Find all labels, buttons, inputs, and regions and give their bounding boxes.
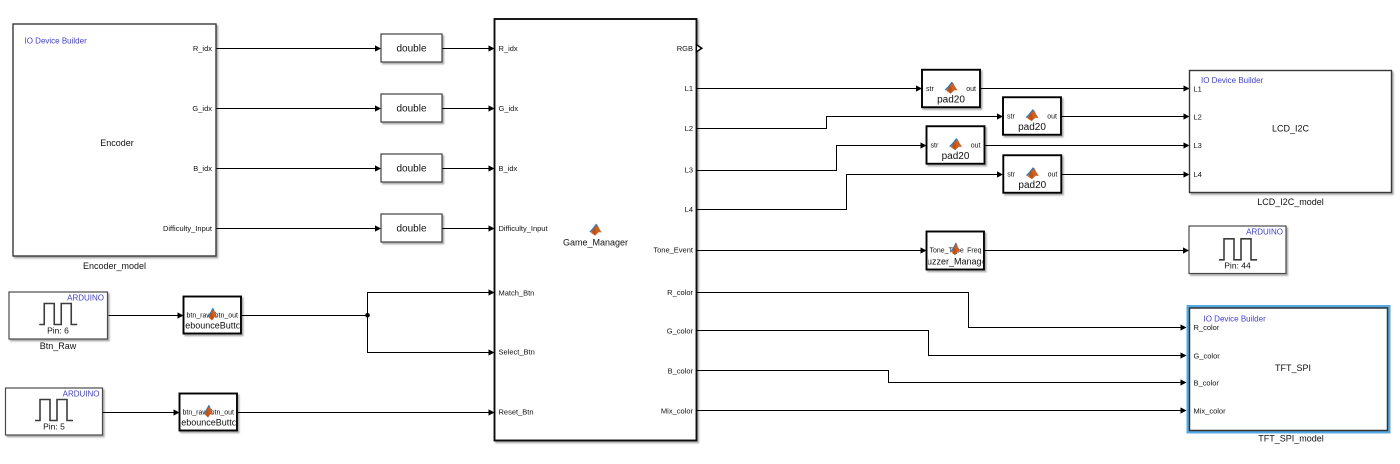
MATLAB logo Buzzer_Manager	[951, 242, 960, 255]
svg-text:ARDUINO: ARDUINO	[67, 294, 104, 303]
svg-text:pad20: pad20	[937, 94, 965, 105]
wire double2 to Game_Manager	[443, 108, 489, 110]
svg-text:L3: L3	[685, 166, 693, 175]
svg-text:L1: L1	[1194, 85, 1202, 94]
block double (Data Type Conversion 1)	[381, 34, 442, 62]
svg-text:double: double	[396, 224, 426, 235]
wire Debounce2 to Reset_Btn	[238, 412, 489, 414]
svg-text:Encoder: Encoder	[100, 138, 134, 148]
svg-text:ARDUINO: ARDUINO	[1246, 228, 1283, 237]
block pad20 #4 (MATLAB Function)	[1003, 155, 1061, 193]
arrowhead into Pin44	[1183, 247, 1189, 253]
svg-text:IO Device Builder: IO Device Builder	[1204, 315, 1267, 324]
arrowhead into Game_Manager Difficulty_Input	[489, 225, 495, 231]
square-wave icon Pin44	[1219, 239, 1257, 260]
wire Tone_Event to Buzzer_Manager	[697, 250, 921, 252]
svg-text:L2: L2	[685, 124, 693, 133]
svg-text:Pin: 44: Pin: 44	[1224, 261, 1251, 271]
svg-text:Pin: 6: Pin: 6	[47, 326, 69, 336]
wire L2 to pad20_2	[697, 117, 998, 129]
block LCD_I2C_model (IO Device Builder sink)	[1190, 71, 1392, 193]
svg-text:Tone_Event: Tone_Event	[653, 246, 694, 255]
wire G_color to TFT_SPI	[697, 331, 1181, 356]
svg-text:out: out	[1047, 114, 1057, 121]
svg-text:LCD_I2C: LCD_I2C	[1272, 124, 1310, 134]
svg-text:Select_Btn: Select_Btn	[499, 348, 535, 357]
svg-text:str: str	[1007, 172, 1015, 179]
MATLAB logo Game_Manager	[589, 224, 601, 236]
svg-text:R_idx: R_idx	[193, 44, 212, 53]
wire double1 to Game_Manager	[443, 48, 489, 50]
arrowhead into LCD L4	[1184, 171, 1190, 177]
wire R_color to TFT_SPI	[697, 293, 1181, 328]
svg-text:Difficulty_Input: Difficulty_Input	[163, 224, 213, 233]
wire pad20_2 to LCD L2	[1062, 116, 1185, 118]
arrowhead into TFT B_color	[1181, 379, 1187, 385]
MATLAB logo pad20_1	[945, 82, 958, 94]
svg-text:DebounceButton: DebounceButton	[175, 418, 242, 428]
svg-text:Encoder_model: Encoder_model	[83, 261, 146, 271]
wire Encoder to double4	[217, 228, 376, 230]
block pad20 #3 (MATLAB Function)	[927, 126, 985, 164]
wire Buzzer_Manager to Pin44	[985, 250, 1184, 252]
svg-text:ARDUINO: ARDUINO	[63, 390, 100, 399]
MATLAB logo pad20_4	[1026, 167, 1039, 179]
wire double3 to Game_Manager	[443, 168, 489, 170]
block Game_Manager (MATLAB Function subsystem)	[495, 19, 697, 441]
block Buzzer_Manager (MATLAB Function)	[927, 232, 985, 270]
svg-text:pad20: pad20	[1018, 122, 1046, 133]
svg-text:out: out	[966, 86, 976, 93]
svg-text:double: double	[396, 164, 426, 175]
arrowhead into pad20_2	[997, 113, 1003, 119]
svg-text:R_color: R_color	[667, 288, 693, 297]
wire B_color to TFT_SPI	[697, 371, 1181, 383]
arrowhead into pad20_4	[997, 171, 1003, 177]
block DebounceButton #1 (MATLAB Function)	[184, 297, 242, 334]
MATLAB logo pad20_3	[949, 138, 962, 150]
svg-text:TFT_SPI: TFT_SPI	[1275, 363, 1311, 373]
wire Encoder to double1	[217, 48, 376, 50]
block PWM Pin 44 (Arduino sink)	[1189, 226, 1286, 274]
svg-text:str: str	[926, 86, 934, 93]
arrowhead into Reset_Btn	[489, 409, 495, 415]
arrowhead into TFT Mix_color	[1181, 407, 1187, 413]
svg-text:btn_out: btn_out	[211, 410, 234, 417]
wire branch to Select_Btn	[368, 316, 489, 353]
svg-text:L4: L4	[685, 205, 693, 214]
block Btn_Raw (Arduino digital input Pin 6)	[9, 292, 108, 339]
block Pin 5 (Arduino digital input)	[6, 388, 103, 435]
wire Encoder to double2	[217, 108, 376, 110]
block double (Data Type Conversion 4)	[381, 214, 442, 242]
wire L4 to pad20_4	[697, 175, 998, 210]
arrowhead into Debounce1	[178, 312, 184, 318]
svg-text:B_color: B_color	[1194, 379, 1220, 388]
selection highlight TFT_SPI	[1188, 307, 1389, 433]
arrowhead into Buzzer_Manager	[921, 247, 927, 253]
arrowhead into TFT G_color	[1181, 352, 1187, 358]
svg-text:out: out	[971, 143, 981, 150]
svg-text:Reset_Btn: Reset_Btn	[499, 408, 534, 417]
square-wave icon Pin6	[39, 304, 77, 325]
svg-text:btn_out: btn_out	[215, 313, 238, 320]
svg-text:G_color: G_color	[1194, 352, 1221, 361]
arrowhead into Game_Manager G_idx	[489, 105, 495, 111]
wire Mix_color to TFT_SPI	[697, 410, 1181, 412]
svg-text:B_idx: B_idx	[499, 164, 518, 173]
wire Pin5 to Debounce2	[103, 412, 175, 414]
arrowhead into double2	[375, 105, 381, 111]
block double (Data Type Conversion 2)	[381, 94, 442, 122]
arrowhead into Match_Btn	[489, 289, 495, 295]
svg-text:R_color: R_color	[1194, 323, 1220, 332]
arrowhead into LCD L2	[1184, 113, 1190, 119]
arrowhead into pad20_1	[916, 85, 922, 91]
svg-text:Match_Btn: Match_Btn	[499, 289, 535, 298]
unconnected output port RGB	[696, 45, 702, 52]
svg-text:pad20: pad20	[942, 151, 970, 162]
arrowhead into LCD L3	[1184, 142, 1190, 148]
arrowhead into double4	[375, 225, 381, 231]
svg-text:L1: L1	[685, 84, 693, 93]
wire pad20_3 to LCD L3	[985, 145, 1185, 147]
svg-text:TFT_SPI_model: TFT_SPI_model	[1258, 434, 1324, 444]
junction dot Match/Select branch	[365, 313, 370, 318]
svg-text:L2: L2	[1194, 113, 1202, 122]
wire L1 to pad20_1	[697, 88, 917, 90]
svg-text:str: str	[931, 143, 939, 150]
arrowhead into Select_Btn	[489, 349, 495, 355]
svg-text:str: str	[1007, 114, 1015, 121]
svg-text:RGB: RGB	[677, 44, 693, 53]
svg-text:Buzzer_Manager: Buzzer_Manager	[921, 257, 990, 267]
block pad20 #1 (MATLAB Function)	[922, 70, 980, 108]
arrowhead into LCD L1	[1184, 85, 1190, 91]
MATLAB logo pad20_2	[1026, 109, 1039, 121]
svg-text:IO Device Builder: IO Device Builder	[25, 37, 88, 46]
wire Encoder to double3	[217, 168, 376, 170]
svg-text:G_color: G_color	[667, 327, 694, 336]
svg-text:LCD_I2C_model: LCD_I2C_model	[1257, 197, 1324, 207]
wire double4 to Game_Manager	[443, 228, 489, 230]
arrowhead into double1	[375, 45, 381, 51]
wire L3 to pad20_3	[697, 146, 921, 171]
svg-text:Mix_color: Mix_color	[1194, 407, 1227, 416]
wire Pin6 to Debounce1	[109, 315, 179, 317]
svg-text:Difficulty_Input: Difficulty_Input	[499, 224, 549, 233]
arrowhead into Game_Manager R_idx	[489, 45, 495, 51]
arrowhead into Game_Manager B_idx	[489, 165, 495, 171]
svg-text:Pin: 5: Pin: 5	[43, 422, 65, 432]
block double (Data Type Conversion 3)	[381, 154, 442, 182]
svg-text:G_idx: G_idx	[192, 104, 212, 113]
svg-text:double: double	[396, 104, 426, 115]
block DebounceButton #2 (MATLAB Function)	[180, 394, 238, 431]
square-wave icon Pin5	[35, 400, 73, 421]
arrowhead into TFT R_color	[1181, 324, 1187, 330]
svg-text:Game_Manager: Game_Manager	[563, 238, 628, 248]
svg-text:Btn_Raw: Btn_Raw	[40, 341, 77, 351]
arrowhead into pad20_3	[921, 142, 927, 148]
svg-text:L3: L3	[1194, 141, 1202, 150]
wire Debounce1 to junction	[242, 315, 368, 317]
MATLAB logo DebounceButton1	[207, 308, 217, 321]
svg-text:R_idx: R_idx	[499, 44, 518, 53]
svg-text:B_idx: B_idx	[193, 164, 212, 173]
svg-text:IO Device Builder: IO Device Builder	[1201, 76, 1264, 85]
wire branch to Match_Btn	[368, 293, 489, 316]
svg-text:out: out	[1048, 172, 1058, 179]
svg-text:pad20: pad20	[1018, 180, 1046, 191]
arrowhead into Debounce2	[174, 409, 180, 415]
svg-text:DebounceButton: DebounceButton	[179, 321, 246, 331]
arrowhead into double3	[375, 165, 381, 171]
svg-text:L4: L4	[1194, 170, 1202, 179]
svg-text:Mix_color: Mix_color	[661, 407, 694, 416]
MATLAB logo DebounceButton2	[203, 405, 213, 418]
svg-text:double: double	[396, 44, 426, 55]
svg-text:G_idx: G_idx	[499, 104, 519, 113]
wire pad20_1 to LCD L1	[981, 88, 1185, 90]
block pad20 #2 (MATLAB Function)	[1003, 97, 1061, 135]
block TFT_SPI_model (IO Device Builder sink, selected)	[1190, 308, 1388, 431]
block Encoder_model (IO Device Builder source block)	[13, 24, 216, 256]
svg-text:B_color: B_color	[668, 367, 694, 376]
svg-text:Freq: Freq	[967, 248, 982, 255]
wire pad20_4 to LCD L4	[1062, 174, 1185, 176]
